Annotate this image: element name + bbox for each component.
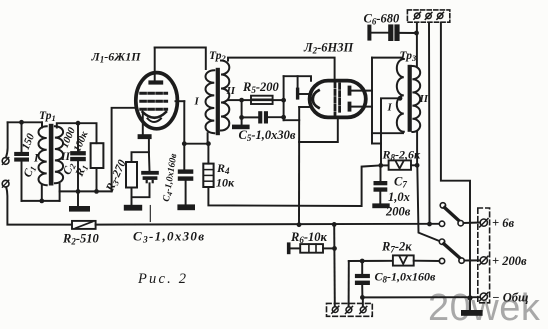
transformer Tr1 core [49,124,54,186]
wire R8 right down to switch2 [417,165,440,241]
junction R6 rail [332,222,337,227]
wire anode top run to Tr2 [155,48,206,70]
svg-text:Тр3: Тр3 [400,50,418,63]
svg-text:С3-1,0х30в: С3-1,0х30в [133,229,205,246]
svg-text:R4: R4 [216,161,230,176]
junction C6 right [414,31,419,36]
svg-text:С1: С1 [22,164,39,180]
resistor R4 [203,164,213,187]
svg-text:С4-1,0х160в: С4-1,0х160в [162,152,181,202]
tube L1 cathode arc [143,112,166,118]
junction R5 right [281,98,286,103]
tube L2 right cathode bar [348,102,352,112]
wire R3 bottom lead [131,188,133,205]
wire C6 right lead [400,32,417,34]
terminal bottom 3 [360,306,367,313]
junction R6 right [332,246,337,251]
terminal bottom 2 [346,306,353,313]
terminal block bottom (dashed) [327,303,373,316]
wire L2 grid block bottom edge [284,119,300,121]
tube L2 grid bar electrode [296,88,299,100]
terminal bottom 1 [332,306,339,313]
terminal block right (dashed) [478,208,490,303]
svg-text:С7: С7 [394,175,407,190]
svg-text:II: II [226,85,236,97]
capacitor C1 [14,152,29,162]
wire R4 top lead [207,144,209,164]
svg-text:R6-10к: R6-10к [290,230,328,245]
junction common ground [467,295,472,300]
resistor R8 (variable) [389,160,411,169]
wire L2 anode lead [351,90,372,92]
tube L2 right anode bar [348,86,352,96]
switch SA2 right contact [459,258,464,263]
terminal top 2 [425,12,432,19]
switch SA2 blade [444,244,461,259]
transformer Tr2 core [216,68,220,135]
wire ground stub left [77,191,79,206]
terminal +6v [480,219,488,227]
wire tap down to R8 left [381,98,400,165]
wire C1 bottom lead [21,162,23,201]
junction R8 left [378,163,383,168]
svg-text:R5-200: R5-200 [242,80,280,95]
ground G1 [69,206,90,212]
capacitor C6 end bar [367,25,371,41]
wire common rail [96,223,440,226]
wire Tr3 primary top edge [372,57,401,59]
transformer Tr2 winding I [206,70,215,133]
resistor R5 [251,96,273,104]
ground G5 [232,125,250,130]
terminal block top (dashed) [407,10,449,22]
wire C6 left lead [371,32,388,34]
svg-text:II: II [419,93,429,105]
wire input1 to top rail [6,122,8,157]
capacitor C7 [374,181,388,192]
tube L2 envelope [310,81,366,118]
wire winding I top lead [41,122,43,127]
input terminal XS2 [2,180,9,187]
wire L2 cathode down to rail [298,107,300,225]
junction C8 top [360,259,365,264]
capacitor C3 [141,171,159,183]
wire winding I bottom lead [41,185,43,201]
svg-text:I: I [194,96,200,108]
svg-text:R7-2к: R7-2к [381,240,412,255]
terminal top 1 [414,12,421,19]
resistor R1 [91,143,104,168]
resistor R6 [300,244,323,253]
svg-text:200в: 200в [385,205,411,219]
wire R4 bottom run to R8 junction [208,165,380,206]
wire R5 right lead [273,99,284,101]
svg-text:Л1-6Ж1П: Л1-6Ж1П [91,50,142,65]
transformer Tr1 winding II [55,126,63,183]
switch SA1 top contact [440,203,445,208]
junction R4 top [206,141,211,146]
transformer Tr1 winding I [39,126,47,185]
wire drop to grid bar [297,76,299,87]
resistor R3 [126,162,137,188]
leader line from C3 label [149,206,151,222]
junction R1 bottom [94,189,99,194]
wire input2 down to common rail [6,187,72,225]
switch SA2 top contact [439,239,444,244]
wire L2 left cathode lead [299,106,309,108]
tube L1 heater arc [148,119,162,123]
terminal -common [480,293,488,301]
junction C5 left [239,115,244,120]
wire L1 anode lead [154,48,156,81]
svg-text:R1: R1 [73,163,90,180]
resistor R7 (variable) [393,255,414,265]
wire R1 bottom lead [96,168,98,191]
wire ground stub right [469,298,471,310]
wire L1 screen lead [176,100,185,102]
transformer Tr2 winding II [221,61,229,131]
resistor R6 end bar [287,242,291,254]
wire L2 grid2 lead down [299,118,338,143]
wire y143 rung [372,143,381,145]
wire R8 left lead [381,164,389,166]
tube L1 anode [148,80,163,84]
wire L2 right cathode lead [351,106,372,108]
wire drop to bottom terminal 2 [348,261,350,307]
wire L1 grid lead [112,108,137,192]
wire Tr3 primary left riser [371,58,373,144]
svg-text:+ 200в: + 200в [492,254,527,268]
wire bottom rail left [22,200,60,202]
junction C5 right [281,115,286,120]
wire cathode branch to C3 [148,152,151,171]
wire Tr2 winding II tap lead [229,99,242,101]
wire SA2 to +200v terminal [464,259,479,261]
transformer Tr3 winding I [397,59,404,132]
wire C5 ground stub [241,117,243,124]
wire top rail left [8,122,42,127]
wire R7 right lead [414,260,440,262]
wire C7 bottom lead [379,192,381,204]
wire C2 top lead [77,123,79,151]
wire R6 right lead [323,247,335,249]
wire SA1 to +6v terminal [463,222,479,225]
junction Tr3 winding I tap [398,96,403,101]
wire bottom common run [362,296,479,298]
ground G7 [461,310,483,316]
capacitor C5 [258,111,268,123]
junction C2 bottom [76,189,81,194]
wire Tr3 winding II bottom lead [416,132,418,165]
ground G6 under C7 [372,203,389,208]
wire L2 grid block left edge [283,76,285,120]
wire Tr2 winding I bottom lead [207,133,209,144]
switch SA2 left contact [439,258,444,263]
wire C4 bottom lead [185,181,187,205]
svg-text:1,0х: 1,0х [388,190,410,204]
svg-text:I: I [387,102,393,114]
junction line B at rail [427,222,432,227]
wire R6 rail drop [333,224,336,306]
tube L1 envelope [136,73,178,129]
ground G3 under C4 [177,204,195,210]
ground G2 under R3 [124,205,142,211]
wire C2 bottom lead [77,161,79,191]
switch SA1 blade [445,208,459,221]
wire winding II bottom lead [59,184,61,201]
svg-text:Тр2: Тр2 [209,50,227,63]
tube L1 grid rows [141,93,167,109]
wire tap down to C5 [242,100,258,117]
wire C3 bottom lead [132,183,150,197]
wire cathode branch to R3 [132,152,149,162]
svg-text:I: I [33,153,39,165]
wire R6 left lead [291,247,301,249]
wire L2 grid block top edge [284,76,311,81]
junction C8 bottom [360,295,365,300]
svg-text:II: II [60,151,70,163]
wire top rail right [57,123,97,143]
wire C7 top lead [380,165,382,181]
switch SA1 right contact [458,221,463,226]
capacitor C6 [388,24,399,41]
svg-text:R2-510: R2-510 [62,232,100,247]
junction R8 right [415,163,420,168]
ground G4 under tube L1 [138,134,152,139]
wire bottom rail right [60,190,112,192]
wire C1 top lead [21,122,23,152]
resistor R2 (variable) [72,221,96,229]
wire cathode node down [148,139,150,152]
wire Tr3 winding II top lead / line A [416,23,418,67]
capacitor C8 [355,274,370,285]
svg-text:С5-1,0х30в: С5-1,0х30в [239,128,296,143]
wire line C terminal3 down and right [441,23,470,298]
svg-text:10к: 10к [216,176,235,190]
wire C8 bottom lead [361,285,363,297]
junction tap node [239,98,244,103]
wire Tr2 winding II top to L2 grid [228,58,335,82]
wire R5 left lead [242,99,251,101]
wire grid bar lead [299,93,308,95]
svg-text:+ 6в: + 6в [492,216,514,230]
input terminal XS1 [2,157,9,164]
wire L1 cathode lead [142,113,144,135]
svg-text:С6-680: С6-680 [364,12,401,27]
wire R8 right lead [411,164,417,166]
capacitor C4 [178,169,194,180]
svg-text:R8-2,6к: R8-2,6к [382,148,422,163]
transformer Tr3 core [408,65,412,132]
tube L2 grid 1 dashed [334,83,337,116]
tube L2 grid 2 dashed [338,84,341,114]
svg-text:− Общ: − Общ [492,291,528,305]
wire y143 between C4 and R4 [184,143,208,145]
wire Tr3 winding I bottom lead [372,132,403,134]
svg-text:Л2-6Н3П: Л2-6Н3П [303,41,354,56]
capacitor C2 [70,151,86,161]
junction C2 top [76,121,81,126]
wire C8 top lead [361,261,363,274]
terminal +200v [480,256,488,264]
junction C4 line at y143 [182,141,187,146]
svg-text:Рис. 2: Рис. 2 [137,271,188,287]
switch SA1 left contact [439,221,444,226]
wire R7 C8 node run [349,260,393,262]
junction C1 top [19,120,24,125]
terminal top 3 [437,12,444,19]
svg-text:Тр1: Тр1 [39,110,56,123]
wire C5 right lead [268,116,284,118]
wire drop to bottom terminal 3 [362,297,364,306]
svg-text:С8-1,0х160в: С8-1,0х160в [375,270,437,285]
junction winding I bottom [39,199,44,204]
junction cathode rail [297,222,302,227]
wire line B terminal2 down to rail [428,23,431,224]
tube L2 left cathode arc [313,90,319,107]
wire C4 top lead [183,101,185,169]
transformer Tr3 winding II [412,66,420,132]
